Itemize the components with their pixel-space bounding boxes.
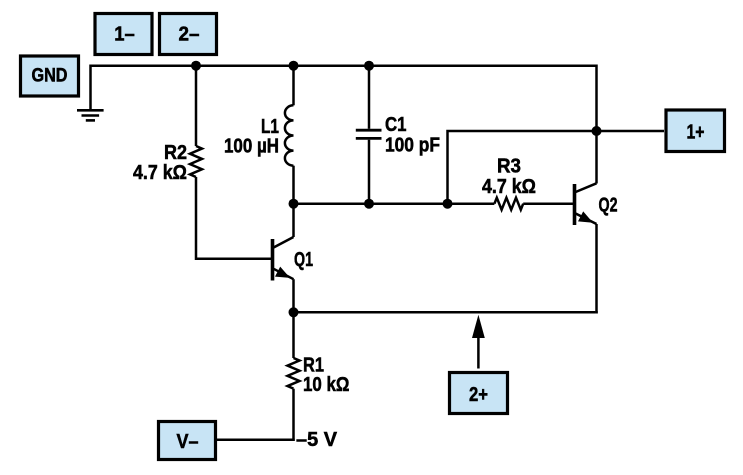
node junction dots <box>191 61 602 318</box>
svg-text:4.7 kΩ: 4.7 kΩ <box>133 162 187 184</box>
wire R2 top lead <box>195 66 198 146</box>
wire L1 bottom lead <box>292 166 295 204</box>
svg-text:C1: C1 <box>385 114 407 136</box>
wire L1 top lead <box>292 66 295 106</box>
terminal box 1- <box>95 14 152 55</box>
svg-text:–5 V: –5 V <box>296 429 338 451</box>
label R2 value <box>133 142 187 184</box>
2+ input arrow <box>472 315 485 369</box>
terminal box 2+ <box>450 373 508 414</box>
wire V- lead <box>217 439 295 442</box>
svg-text:100 µH: 100 µH <box>224 136 279 158</box>
label R1 value <box>303 355 350 397</box>
wire output node to 1+ <box>597 130 665 133</box>
wire left drop to ground <box>89 65 92 110</box>
wire R1 bottom lead <box>292 389 295 441</box>
resistor R3 <box>494 198 523 210</box>
svg-text:2–: 2– <box>179 23 200 46</box>
svg-text:1+: 1+ <box>687 120 705 143</box>
capacitor C1 <box>356 130 382 138</box>
wire C1 bottom lead <box>368 140 371 204</box>
transistor Q2 <box>575 183 597 225</box>
resistor R1 <box>288 358 300 389</box>
svg-text:R3: R3 <box>497 156 521 178</box>
label C1 value <box>385 114 440 157</box>
transistor Q1 <box>273 237 294 281</box>
svg-text:4.7 kΩ: 4.7 kΩ <box>482 176 536 198</box>
svg-text:GND: GND <box>32 66 68 87</box>
wire R1 top lead <box>292 312 295 358</box>
terminal box GND <box>21 56 79 96</box>
wire Q2 emitter lead <box>595 224 598 314</box>
ground <box>77 110 104 120</box>
wire mid rail right to Q2 base <box>523 202 573 205</box>
svg-text:Q2: Q2 <box>599 195 618 217</box>
label L1 value <box>224 116 279 158</box>
label R3 value <box>482 156 536 199</box>
svg-text:2+: 2+ <box>469 383 488 406</box>
wire Q1 collector lead <box>292 204 295 237</box>
svg-text:Q1: Q1 <box>294 249 313 271</box>
wire C1 top lead <box>368 66 371 129</box>
terminal box 1+ <box>666 110 725 152</box>
inductor L1 <box>285 105 294 165</box>
wire bottom emitter rail <box>294 311 597 314</box>
wire feedback riser <box>448 131 597 204</box>
wire top rail GND node <box>90 64 597 67</box>
terminal box V- <box>159 422 216 460</box>
svg-text:10 kΩ: 10 kΩ <box>303 374 350 396</box>
svg-text:100 pF: 100 pF <box>385 135 440 157</box>
wire Q1 emitter lead <box>292 279 295 313</box>
wire mid rail left <box>294 202 495 205</box>
terminal box 2- <box>160 14 217 55</box>
svg-text:V–: V– <box>177 430 199 453</box>
wire R2 bottom lead to Q1 base <box>196 177 272 259</box>
svg-text:1–: 1– <box>114 23 135 46</box>
wire right vertical (top rail corner to Q2 collector) <box>595 65 598 184</box>
svg-text:R2: R2 <box>164 142 187 164</box>
resistor R2 <box>190 146 202 177</box>
